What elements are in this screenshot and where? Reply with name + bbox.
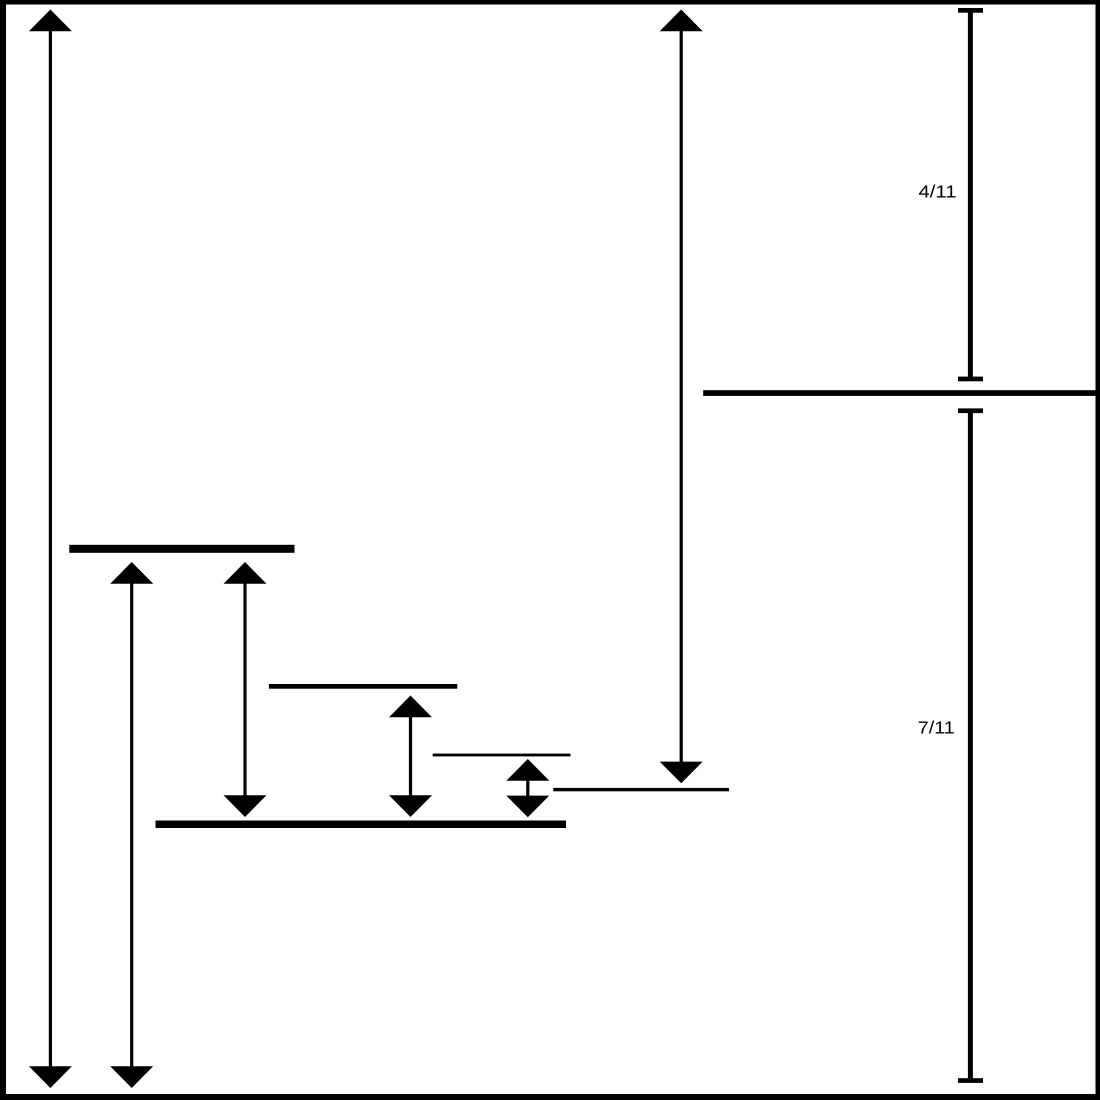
double arrow B (second left) bbox=[110, 562, 153, 1088]
frame border right bbox=[1096, 0, 1100, 1100]
level bar L3 (thin) bbox=[433, 754, 571, 757]
ruler segment 7/11 (vertical line) bbox=[968, 411, 973, 1081]
double arrow A (far left, full height) bbox=[29, 10, 72, 1089]
divider line (right, full to border) bbox=[703, 390, 1100, 396]
level bar L5 (thick, bottom) bbox=[156, 821, 567, 829]
ruler tick top of 4/11 bbox=[958, 8, 983, 13]
level bar L1 (thick, top-left) bbox=[69, 545, 294, 553]
svg-text:7/11: 7/11 bbox=[918, 718, 955, 738]
double arrow C (L1 to L5) bbox=[224, 562, 267, 817]
ruler tick bottom of 4/11 bbox=[958, 377, 983, 382]
frame border bottom bbox=[0, 1094, 1100, 1100]
level bar L2 (medium) bbox=[269, 684, 457, 689]
ruler tick top of 7/11 bbox=[958, 408, 983, 413]
frame border left bbox=[0, 0, 6, 1100]
double arrow E (small, L3 to L5) bbox=[506, 759, 549, 817]
svg-text:4/11: 4/11 bbox=[919, 182, 957, 202]
double arrow D (L2 to L5) bbox=[389, 696, 432, 818]
double arrow F (tall, centre-right) bbox=[660, 10, 703, 784]
frame border top bbox=[0, 0, 1100, 5]
ruler tick bottom of 7/11 bbox=[958, 1078, 983, 1083]
ruler segment 4/11 (vertical line) bbox=[968, 10, 973, 379]
level bar L4 (thin, right of small arrow) bbox=[553, 788, 729, 791]
